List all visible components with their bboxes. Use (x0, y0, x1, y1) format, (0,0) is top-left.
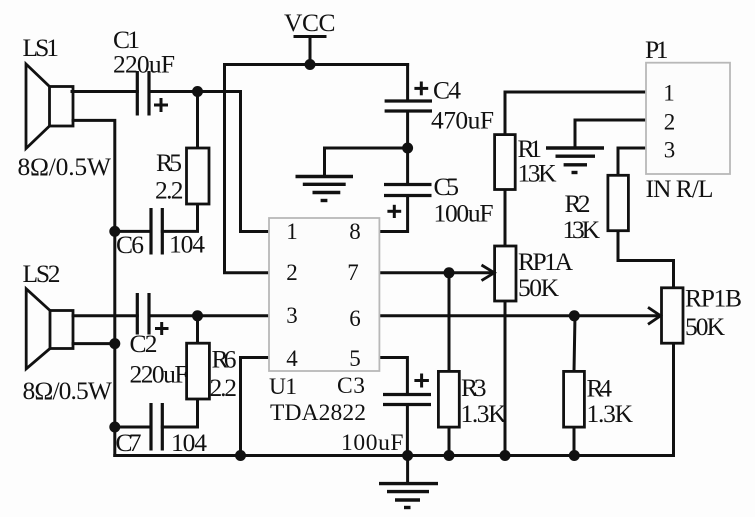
capacitor C6 plates (151, 208, 162, 255)
C2 polarity + (155, 322, 169, 335)
svg-text:220uF: 220uF (130, 360, 189, 389)
capacitor C5 plates (384, 185, 432, 196)
node: rail/RP1A (500, 450, 511, 461)
wire: P1 pin2 left then down to ground (575, 120, 646, 148)
wire: R1 bottom to RP1A top (504, 190, 507, 247)
wire: R2 bottom to RP1B top (618, 231, 674, 288)
wire: C5 bottom plate down and left to U1 pin8 (379, 196, 407, 232)
wire: R4 bottom to rail (573, 427, 576, 455)
wire: C6 right plate to R5 bottom (162, 204, 197, 231)
wire: C1 right plate to node A then corner down to U1 pin1 (149, 92, 269, 232)
wire: LS1 bottom terminal down left bus to bottom rail (73, 120, 115, 455)
resistor R4 (564, 371, 585, 427)
wire: C2 right plate to U1 pin3 (149, 314, 269, 317)
wire: LS2 top terminal to C2 left plate (73, 314, 137, 317)
resistor R1 (495, 135, 516, 190)
capacitor C3 plates (383, 395, 431, 405)
capacitor C4 plates (385, 101, 432, 111)
wire: node pin7 down through R3 to bottom rail (448, 273, 451, 372)
svg-text:3: 3 (286, 303, 298, 328)
node: rail/C3-ground (402, 450, 413, 461)
svg-text:R2: R2 (565, 189, 591, 218)
svg-text:2: 2 (664, 110, 676, 135)
resistor R5 (187, 148, 210, 204)
svg-text:13K: 13K (563, 215, 601, 244)
potentiometer RP1A body (495, 246, 516, 301)
svg-text:C3: C3 (337, 373, 365, 399)
speaker LS1 (26, 64, 73, 149)
wire: C7 row left segment (115, 426, 151, 429)
C4 polarity + (414, 82, 428, 96)
wire: U1 pin6 row to RP1B wiper arrow (379, 314, 658, 317)
svg-text:1.3K: 1.3K (461, 399, 508, 428)
svg-text:104: 104 (169, 230, 205, 259)
wire: U1 pin5 right and down to C3 top plate (379, 358, 407, 395)
wire: R3 bottom to rail (448, 427, 451, 455)
svg-text:5: 5 (349, 346, 361, 371)
node: left bus / C7 junction (109, 422, 120, 433)
wire: node A down to R5 top (196, 92, 199, 149)
svg-text:8Ω/0.5W: 8Ω/0.5W (23, 376, 113, 405)
wire: P1 pin3 left then down to R2 top (618, 148, 646, 176)
C3 polarity + (414, 374, 429, 388)
node: pin6/R4 junction (569, 310, 580, 321)
svg-text:RP1A: RP1A (518, 247, 574, 276)
svg-text:13K: 13K (518, 159, 558, 188)
svg-text:220uF: 220uF (113, 50, 175, 79)
resistor R3 (438, 371, 459, 427)
svg-text:C2: C2 (130, 329, 158, 358)
svg-text:8Ω/0.5W: 8Ω/0.5W (18, 152, 112, 181)
svg-text:C6: C6 (116, 230, 144, 259)
wire: C6 row left segment (115, 230, 151, 233)
svg-text:U1: U1 (269, 374, 297, 400)
svg-text:100uF: 100uF (434, 199, 494, 228)
wire: node C4/C5 left to ground tap (325, 148, 408, 177)
svg-text:104: 104 (171, 428, 207, 457)
node: pin7/R3/RP1A junction (444, 267, 455, 278)
svg-text:100uF: 100uF (341, 430, 404, 456)
node: left bus / LS2 junction (109, 338, 120, 349)
C5 polarity + (387, 205, 401, 218)
svg-text:LS2: LS2 (23, 259, 61, 288)
svg-text:RP1B: RP1B (685, 284, 742, 313)
wire: node R6 top stub (196, 316, 199, 343)
ground (bottom rail) (379, 456, 438, 508)
wire: LS1 top terminal to C1 left plate (72, 90, 137, 93)
node: pin3/R6 junction (192, 310, 203, 321)
node: rail/R4 (569, 450, 580, 461)
svg-text:2.2: 2.2 (155, 176, 184, 205)
svg-text:R6: R6 (212, 345, 237, 374)
svg-text:50K: 50K (518, 273, 560, 302)
svg-text:P1: P1 (645, 35, 669, 64)
wire: VCC top rail and down-left to U1 pin2 (225, 65, 408, 273)
svg-text:C5: C5 (434, 172, 460, 201)
op-amp IC U1 TDA2822 body (269, 218, 379, 371)
wire: C7 right plate to R6 bottom (162, 399, 197, 427)
node: VCC rail junction (305, 59, 316, 70)
svg-text:VCC: VCC (284, 8, 336, 37)
node: rail/pin4 (235, 450, 246, 461)
wire: LS2 bottom terminal to left bus (73, 342, 115, 345)
node: rail/R3 (444, 450, 455, 461)
capacitor C1 plates (137, 71, 149, 116)
wire: U1 pin4 down to bottom rail (241, 358, 270, 456)
node: C1/R5 junction (192, 86, 203, 97)
potentiometer RP1B body (662, 288, 684, 343)
wire: RP1A bottom to bottom rail (504, 301, 507, 456)
wire: P1 pin1 left to R1 column (505, 92, 646, 135)
wire: bottom ground rail (115, 343, 674, 455)
resistor R2 (608, 175, 629, 230)
ground (C4/C5 tap) (296, 177, 354, 201)
svg-text:6: 6 (349, 306, 361, 331)
capacitor C2 plates (137, 293, 149, 335)
svg-text:3: 3 (664, 138, 676, 163)
svg-text:C4: C4 (433, 76, 461, 105)
svg-text:1.3K: 1.3K (587, 399, 634, 428)
wire: U1 pin7 to RP1A wiper arrow (379, 271, 494, 274)
svg-text:8: 8 (349, 219, 361, 244)
VCC symbol (295, 37, 325, 65)
connector P1 body (646, 63, 730, 174)
svg-text:IN R/L: IN R/L (646, 174, 714, 203)
svg-text:LS1: LS1 (23, 33, 60, 62)
RP1B wiper arrow (648, 307, 661, 324)
svg-text:1: 1 (663, 81, 675, 106)
svg-text:2: 2 (286, 260, 298, 285)
svg-text:470uF: 470uF (431, 106, 494, 135)
svg-text:50K: 50K (685, 312, 726, 341)
ground (P1 pin2) (546, 148, 604, 173)
wire: C3 bottom plate down to bottom rail (406, 405, 409, 456)
svg-text:7: 7 (347, 260, 359, 285)
node: left bus / C6 junction (109, 226, 120, 237)
svg-text:R3: R3 (461, 373, 487, 402)
resistor R6 (187, 343, 210, 399)
svg-text:1: 1 (286, 219, 298, 244)
C1 polarity + (154, 98, 168, 112)
RP1A wiper arrow (482, 265, 495, 281)
wire: C4 bottom plate to C5 top plate (406, 111, 409, 185)
svg-text:R5: R5 (156, 148, 182, 177)
node: C4/C5/ground junction (402, 143, 413, 154)
speaker LS2 (26, 289, 73, 369)
svg-text:TDA2822: TDA2822 (270, 400, 366, 426)
wire: top rail down to C4 top plate (406, 65, 409, 102)
svg-text:4: 4 (286, 346, 298, 371)
wire: node pin6 down to R4 top (574, 316, 575, 372)
capacitor C7 plates (151, 403, 162, 451)
svg-text:2.2: 2.2 (210, 373, 238, 402)
svg-text:C7: C7 (116, 428, 142, 457)
